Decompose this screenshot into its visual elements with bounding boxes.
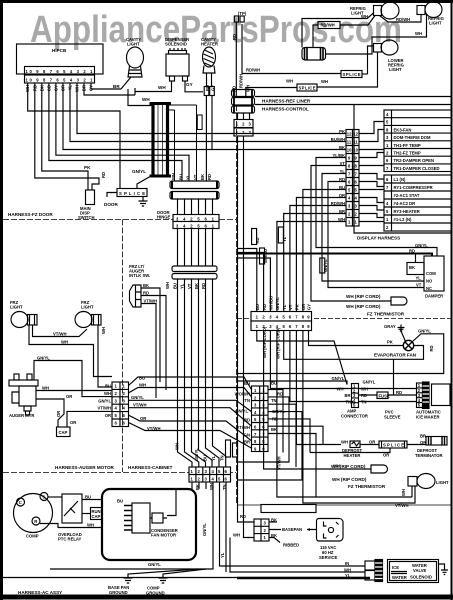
switch wires right bbox=[141, 288, 166, 398]
svg-text:WH: WH bbox=[61, 340, 68, 345]
svg-text:YL: YL bbox=[220, 552, 225, 558]
svg-text:OR: OR bbox=[140, 416, 146, 421]
ground base pan bbox=[124, 569, 199, 583]
svg-text:RD: RD bbox=[272, 417, 278, 422]
svg-text:VT: VT bbox=[193, 174, 198, 180]
ground door bbox=[139, 197, 148, 207]
svg-text:WH: WH bbox=[415, 31, 422, 36]
svg-text:C: C bbox=[19, 500, 22, 505]
cabinet connector box bbox=[189, 467, 231, 482]
splice 1 bbox=[341, 71, 362, 78]
svg-text:DISPLAY HARNESS: DISPLAY HARNESS bbox=[357, 236, 400, 241]
svg-text:WH: WH bbox=[101, 327, 106, 334]
frz light 2 base bbox=[92, 315, 102, 326]
wire 9pin p6 down amp tn bbox=[290, 331, 353, 402]
svg-text:LIGHT: LIGHT bbox=[389, 67, 402, 72]
svg-text:WO/WH: WO/WH bbox=[235, 392, 250, 397]
svg-text:SOLENOID: SOLENOID bbox=[165, 42, 187, 47]
boxed label trunk right bbox=[197, 115, 202, 130]
svg-text:LIGHT: LIGHT bbox=[10, 305, 23, 310]
thick wire bottom bbox=[237, 577, 370, 579]
HiPCB pin row 2 bbox=[25, 75, 95, 83]
wire cavity light BR bbox=[121, 77, 131, 89]
svg-text:HARNESS-AUGER MOTOR: HARNESS-AUGER MOTOR bbox=[55, 465, 115, 470]
fz light base bbox=[408, 477, 417, 487]
svg-text:YL: YL bbox=[416, 276, 422, 281]
wire pin4 GY bbox=[70, 81, 346, 142]
svg-text:WH: WH bbox=[175, 443, 180, 450]
svg-text:OR: OR bbox=[383, 453, 389, 458]
svg-text:GN/YL: GN/YL bbox=[98, 398, 111, 403]
svg-text:WH: WH bbox=[321, 79, 328, 84]
HiPCB pin row 1 bbox=[25, 67, 95, 75]
amp wires right bbox=[359, 388, 418, 390]
condenser loop bbox=[102, 489, 196, 560]
svg-text:#2-AC1 STAT: #2-AC1 STAT bbox=[394, 193, 420, 198]
defrost terminator bbox=[426, 437, 447, 446]
wire 9pin p2 down ripcord bbox=[264, 331, 371, 470]
wire pin3 bbox=[77, 83, 346, 134]
frz light 1 globe bbox=[11, 312, 28, 328]
plug prongs bbox=[328, 527, 333, 532]
wire basepan to plug bbox=[269, 529, 317, 531]
ice connector ribbed bbox=[375, 560, 383, 582]
svg-text:GROUND: GROUND bbox=[146, 591, 165, 596]
svg-text:BK: BK bbox=[409, 265, 415, 270]
svg-text:HARNESS-FZ DOOR: HARNESS-FZ DOOR bbox=[8, 212, 53, 217]
cavity light bulb bbox=[127, 47, 144, 68]
svg-text:WH: WH bbox=[361, 14, 368, 19]
svg-text:ICE: ICE bbox=[392, 565, 399, 570]
wire lower light down bbox=[317, 52, 378, 87]
svg-text:BR: BR bbox=[113, 84, 120, 89]
wire rd stub bbox=[233, 88, 235, 98]
wire pin1 bbox=[91, 83, 152, 106]
svg-text:BR: BR bbox=[345, 393, 351, 398]
ice water box inner bbox=[390, 562, 437, 581]
svg-text:LIGHT: LIGHT bbox=[127, 42, 140, 47]
svg-text:GN/YL: GN/YL bbox=[418, 329, 431, 334]
wire condenser up bbox=[167, 489, 176, 516]
refrig light 2 base bbox=[417, 6, 425, 15]
auger motor top plate bbox=[9, 380, 38, 386]
tp terminals bbox=[234, 16, 238, 22]
evap fan ground bbox=[398, 325, 406, 342]
svg-text:OR: OR bbox=[70, 420, 76, 425]
svg-text:HARNESS-REF LINER: HARNESS-REF LINER bbox=[262, 99, 311, 104]
frz light 1 base bbox=[28, 315, 38, 326]
divider vertical cabinet bbox=[122, 220, 124, 473]
svg-text:NO: NO bbox=[426, 279, 433, 284]
auger motor foot bbox=[24, 406, 31, 411]
ice water inner lines bbox=[391, 572, 407, 574]
wire RD long down bbox=[238, 136, 255, 522]
svg-text:WH: WH bbox=[209, 483, 214, 490]
svg-text:TH1-FF TEMP: TH1-FF TEMP bbox=[394, 143, 421, 148]
svg-text:GN/YL: GN/YL bbox=[272, 409, 285, 414]
wire WH long down bbox=[244, 136, 255, 538]
wire r to wh bbox=[40, 524, 102, 528]
svg-text:GN/YL: GN/YL bbox=[202, 523, 207, 536]
wires bars to pinbox bbox=[178, 199, 213, 215]
cabinet top labels bbox=[175, 443, 228, 490]
wire pin9 PK switch bbox=[35, 83, 99, 190]
frz light 2 globe bbox=[75, 312, 92, 328]
svg-text:WH: WH bbox=[286, 79, 293, 84]
svg-text:GY: GY bbox=[53, 85, 58, 91]
svg-text:OR: OR bbox=[369, 440, 375, 445]
wire s to overload bbox=[48, 496, 62, 498]
border frame left bbox=[0, 0, 3, 600]
svg-text:TR1-DAMPER CLOSED: TR1-DAMPER CLOSED bbox=[394, 166, 440, 171]
splice capsule bbox=[302, 48, 326, 61]
long wire GNYL bbox=[129, 400, 252, 411]
trunk cable left bar bbox=[151, 103, 154, 177]
svg-text:TN: TN bbox=[346, 400, 352, 405]
svg-text:PK: PK bbox=[387, 340, 393, 345]
svg-text:WH (RIP CORD): WH (RIP CORD) bbox=[332, 477, 367, 482]
door hinge verticals bbox=[174, 110, 176, 181]
svg-text:WH: WH bbox=[104, 391, 111, 396]
wire splice to door bbox=[107, 193, 117, 198]
splice to terminator bbox=[407, 444, 426, 446]
svg-text:RD: RD bbox=[232, 34, 237, 40]
wire pin7 BU/WH long bbox=[49, 83, 182, 181]
wire 9pin p7 down defrost bbox=[296, 331, 341, 445]
svg-text:HINGE: HINGE bbox=[157, 215, 170, 220]
defrost heater element bbox=[350, 441, 360, 448]
svg-text:BK: BK bbox=[195, 484, 200, 490]
svg-text:VT: VT bbox=[288, 304, 293, 310]
svg-text:TN: TN bbox=[220, 455, 225, 461]
mid 9pin connector bbox=[252, 386, 269, 452]
conn123 pinbox2 bbox=[234, 128, 253, 136]
9pin top connector row1 bbox=[251, 312, 312, 322]
boxed label mid9 a bbox=[226, 440, 231, 457]
long wire BU bbox=[129, 377, 252, 390]
svg-text:VALVE: VALVE bbox=[413, 568, 427, 573]
divider vertical center bbox=[236, 105, 238, 505]
wire gnyl amp bbox=[237, 381, 347, 385]
wire 9pin p5 down amp rd bbox=[284, 331, 424, 360]
svg-text:CONNECTOR: CONNECTOR bbox=[341, 414, 368, 419]
svg-text:AUGER MTR: AUGER MTR bbox=[9, 413, 34, 418]
long wire OR bbox=[129, 415, 252, 441]
conn123 pinbox1 bbox=[234, 120, 253, 128]
svg-text:LIGHT: LIGHT bbox=[429, 21, 442, 26]
thermistor capsule top bbox=[391, 297, 407, 305]
wire bk top bbox=[269, 521, 277, 523]
svg-text:YL: YL bbox=[180, 283, 185, 289]
auger motor body bbox=[19, 386, 36, 406]
frz interlock switch body bbox=[130, 285, 142, 307]
compressor S bbox=[40, 493, 48, 501]
svg-text:BK: BK bbox=[143, 283, 149, 288]
svg-text:RD: RD bbox=[101, 172, 106, 178]
wire rdwh box to splice cap bbox=[313, 25, 318, 48]
svg-text:WH: WH bbox=[341, 440, 348, 445]
amp pin numbers bbox=[353, 384, 356, 408]
border frame top bbox=[0, 0, 453, 3]
conn123 pins to box bbox=[238, 113, 250, 120]
long wire VTWH bbox=[129, 408, 252, 427]
svg-text:12: 12 bbox=[347, 132, 352, 137]
svg-text:HARNESS-AC ASSY: HARNESS-AC ASSY bbox=[18, 590, 62, 595]
wire color labels vertical bbox=[25, 85, 94, 92]
svg-text:WATER: WATER bbox=[392, 575, 407, 580]
svg-text:WH/BU: WH/BU bbox=[269, 296, 274, 310]
label BASEPAN bbox=[281, 526, 307, 533]
svg-text:VT: VT bbox=[416, 283, 422, 288]
svg-text:GY: GY bbox=[186, 82, 193, 87]
svg-text:WH (RIP CORD): WH (RIP CORD) bbox=[346, 294, 381, 299]
compressor circle bbox=[14, 494, 53, 533]
svg-text:IN: IN bbox=[345, 561, 349, 566]
cabinet wires down 1-3 bbox=[192, 482, 206, 489]
svg-text:GN/YL: GN/YL bbox=[275, 297, 280, 310]
svg-text:BU: BU bbox=[203, 455, 208, 461]
svg-text:WH: WH bbox=[75, 85, 80, 92]
svg-text:PK: PK bbox=[339, 129, 345, 134]
svg-text:YL: YL bbox=[68, 85, 73, 91]
auger motor flange bbox=[12, 392, 19, 403]
svg-text:#4-AC2 DR: #4-AC2 DR bbox=[394, 201, 416, 206]
wires 12pin to cells bbox=[359, 122, 384, 222]
svg-text:GROUND: GROUND bbox=[109, 590, 128, 595]
cavity heater body bbox=[203, 47, 216, 67]
border frame right bbox=[451, 0, 453, 600]
svg-text:GN/YL: GN/YL bbox=[235, 409, 248, 414]
wire relay to cap bbox=[82, 513, 91, 515]
boxed vert label 1 bbox=[252, 229, 257, 245]
lower refrig light base bbox=[374, 44, 382, 53]
svg-text:WH: WH bbox=[158, 85, 166, 90]
conn123 ribbed bar1 bbox=[232, 90, 255, 97]
svg-text:VT/WH: VT/WH bbox=[53, 332, 67, 337]
trunk caps bbox=[150, 104, 172, 177]
svg-text:SOLENOID: SOLENOID bbox=[410, 575, 432, 580]
border frame bottom bbox=[0, 595, 453, 600]
svg-text:BU: BU bbox=[117, 499, 123, 504]
divider control top bbox=[255, 104, 452, 106]
svg-text:WH: WH bbox=[142, 97, 150, 102]
svg-text:VT/WH: VT/WH bbox=[147, 426, 161, 431]
svg-text:S: S bbox=[42, 495, 45, 500]
svg-text:RD: RD bbox=[396, 390, 402, 395]
refrig light 1 base bbox=[374, 6, 382, 16]
svg-text:GY: GY bbox=[211, 85, 216, 91]
ice pin numbers bbox=[418, 383, 421, 408]
svg-text:INTLK SW.: INTLK SW. bbox=[129, 273, 150, 278]
svg-text:DAMPER: DAMPER bbox=[425, 294, 443, 299]
heater wire connectors bbox=[204, 87, 209, 96]
hinge pin box row2 bbox=[173, 222, 219, 229]
svg-text:VT/WH: VT/WH bbox=[133, 403, 147, 408]
damper RD line bbox=[237, 254, 432, 257]
damper BK box bbox=[407, 263, 424, 275]
svg-text:BR: BR bbox=[244, 440, 250, 445]
svg-text:ICE MAKER: ICE MAKER bbox=[416, 415, 440, 420]
wire wh lights bbox=[29, 325, 112, 377]
svg-text:S P L I C E: S P L I C E bbox=[383, 443, 404, 448]
svg-text:GN/YL: GN/YL bbox=[194, 448, 199, 461]
6pin left labels bbox=[98, 384, 112, 419]
cabinet wire gnyl down bbox=[50, 482, 213, 569]
splice or wire down bbox=[310, 448, 390, 453]
svg-text:COMP: COMP bbox=[26, 534, 39, 539]
staircase row9 bbox=[316, 158, 437, 257]
svg-text:BK: BK bbox=[271, 427, 277, 432]
dispenser terminals bbox=[170, 76, 175, 81]
compressor C bbox=[17, 498, 25, 506]
door hinge ribbed connector bar1 bbox=[170, 181, 219, 189]
svg-text:GN/YL: GN/YL bbox=[332, 376, 345, 381]
divider fz liner 2 bbox=[237, 318, 452, 320]
svg-text:FUSE: FUSE bbox=[379, 394, 390, 399]
svg-text:CAP: CAP bbox=[59, 430, 68, 435]
fz liner label box bbox=[261, 505, 316, 513]
wire 9pin p1 down bbox=[257, 331, 347, 385]
svg-text:WH: WH bbox=[165, 282, 170, 289]
evap fan gnyl wire bbox=[237, 334, 444, 374]
defrost wire to splice bbox=[360, 444, 379, 446]
fuse box bbox=[377, 392, 388, 399]
svg-text:DOOR: DOOR bbox=[104, 202, 118, 207]
svg-text:WH: WH bbox=[333, 464, 340, 469]
svg-text:L1 (N): L1 (N) bbox=[394, 177, 406, 182]
main disp switch box bbox=[86, 190, 95, 205]
svg-text:BU: BU bbox=[271, 381, 277, 386]
ice maker ribbed bbox=[423, 382, 430, 409]
svg-text:TR2-DAMPER OPEN: TR2-DAMPER OPEN bbox=[394, 158, 434, 163]
wire light1 to light2 bbox=[380, 14, 422, 22]
wire splice2 left bbox=[246, 88, 297, 98]
condenser fan body bbox=[132, 503, 150, 533]
lower ribbed connector bar1 bbox=[172, 266, 217, 272]
hinge wire labels vertical bbox=[171, 173, 212, 180]
svg-text:BK: BK bbox=[271, 533, 277, 538]
staircase row5 bbox=[303, 190, 346, 312]
svg-text:RD: RD bbox=[429, 345, 434, 351]
svg-text:OR: OR bbox=[66, 394, 72, 399]
svg-text:BU: BU bbox=[173, 283, 178, 289]
svg-text:SERVICE: SERVICE bbox=[319, 555, 338, 560]
svg-text:RD: RD bbox=[262, 304, 267, 310]
svg-text:YL: YL bbox=[345, 573, 351, 578]
svg-text:WH: WH bbox=[401, 489, 406, 496]
svg-text:GN/YL: GN/YL bbox=[148, 562, 161, 567]
wire light2 down bbox=[326, 15, 427, 55]
svg-text:OR: OR bbox=[301, 304, 306, 310]
wire auger or to cap bbox=[36, 399, 64, 427]
svg-text:SLEEVE: SLEEVE bbox=[384, 415, 401, 420]
svg-text:BK: BK bbox=[271, 518, 277, 523]
divider harness-cabinet bbox=[3, 472, 236, 474]
svg-text:BR: BR bbox=[420, 434, 426, 439]
svg-text:WH (RIP CORD): WH (RIP CORD) bbox=[262, 326, 267, 358]
wire gnyl auger bbox=[34, 361, 112, 397]
svg-text:GN/YL: GN/YL bbox=[132, 169, 146, 174]
left feeds to 9pin bbox=[237, 249, 270, 312]
wire auger wh bbox=[36, 390, 112, 392]
cap box bbox=[57, 427, 71, 437]
ground comp bbox=[159, 569, 207, 583]
svg-text:VT/WH: VT/WH bbox=[237, 425, 251, 430]
svg-text:TN: TN bbox=[271, 398, 277, 403]
ripcord line 2 bbox=[370, 468, 372, 470]
svg-text:FZ THERMISTOR: FZ THERMISTOR bbox=[348, 484, 386, 489]
svg-text:BU: BU bbox=[255, 304, 260, 310]
staircase row8 bbox=[311, 166, 391, 302]
wire lower light left bbox=[368, 46, 374, 74]
conn123 ribbed bar2 bbox=[232, 106, 255, 113]
display cells group2 bbox=[384, 175, 452, 231]
svg-text:BU: BU bbox=[139, 376, 145, 381]
heater wires to hinge bbox=[205, 96, 207, 182]
svg-text:BU: BU bbox=[205, 85, 210, 91]
run cap box bbox=[91, 508, 102, 520]
svg-text:DOM-THERM DOM: DOM-THERM DOM bbox=[394, 135, 431, 140]
svg-text:HiPCB: HiPCB bbox=[52, 48, 67, 53]
svg-text:BK: BK bbox=[194, 283, 199, 289]
svg-text:RD: RD bbox=[244, 418, 250, 423]
svg-text:EK3-FAN: EK3-FAN bbox=[394, 127, 412, 132]
svg-text:OR: OR bbox=[105, 413, 111, 418]
basepan 3pin connector bbox=[254, 519, 269, 541]
svg-text:WH (RIP CORD): WH (RIP CORD) bbox=[275, 327, 280, 359]
door hinge ribbed connector bar2 bbox=[170, 192, 219, 200]
svg-text:BU: BU bbox=[179, 174, 184, 180]
svg-text:YL: YL bbox=[282, 304, 287, 310]
damper box bbox=[424, 256, 444, 291]
bottom section line bbox=[0, 577, 365, 579]
hinge pin box row1 bbox=[173, 215, 219, 222]
plug body bbox=[316, 518, 343, 541]
svg-text:TN: TN bbox=[361, 400, 367, 405]
wire pin5 bbox=[63, 83, 346, 150]
divider ref liner top bbox=[255, 96, 452, 98]
wire vtwh lights bbox=[33, 325, 88, 337]
HiPCB box bbox=[17, 44, 104, 74]
staircase row6 VT bbox=[328, 182, 424, 288]
trunk cable right bar bbox=[166, 103, 169, 177]
12pin connector columns bbox=[346, 130, 353, 227]
svg-text:VT/WH: VT/WH bbox=[144, 299, 158, 304]
svg-text:VT/WH: VT/WH bbox=[277, 457, 282, 471]
svg-text:FZ THERMISTOR: FZ THERMISTOR bbox=[367, 312, 405, 317]
wire rd to bk box bbox=[415, 254, 417, 263]
svg-text:GN/YL: GN/YL bbox=[323, 259, 328, 272]
svg-text:RD: RD bbox=[201, 283, 206, 289]
svg-text:FAN MOTOR: FAN MOTOR bbox=[151, 533, 176, 538]
svg-text:BK: BK bbox=[339, 145, 345, 150]
svg-text:OR: OR bbox=[420, 440, 426, 445]
svg-text:LIGHT: LIGHT bbox=[436, 480, 449, 485]
wire wh branch down bbox=[230, 538, 365, 573]
lower refrig light globe bbox=[381, 40, 398, 55]
splice box door bbox=[117, 189, 147, 197]
svg-text:WH: WH bbox=[337, 387, 344, 392]
svg-text:OR: OR bbox=[56, 411, 61, 417]
condenser fan ribs bbox=[124, 506, 132, 531]
svg-text:WH (RIP CORD): WH (RIP CORD) bbox=[346, 304, 381, 309]
boxed vert label 2 bbox=[260, 248, 265, 264]
svg-text:12: 12 bbox=[353, 132, 358, 137]
evap fan circle bbox=[403, 340, 413, 350]
svg-text:EVAPORATOR FAN: EVAPORATOR FAN bbox=[374, 353, 417, 358]
refrig light 2 globe bbox=[425, 2, 442, 18]
outer box harness-control bbox=[354, 105, 452, 233]
